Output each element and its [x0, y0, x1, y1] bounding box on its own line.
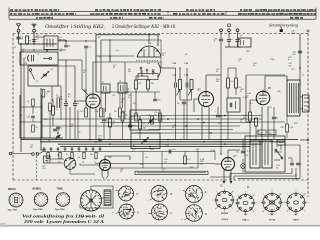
- wire x296 pwr: [295, 174, 297, 180]
- svg-text:g1: g1: [287, 211, 289, 213]
- IF1 res b: [190, 80, 193, 90]
- svg-text:70: 70: [162, 55, 164, 57]
- wire pickup bar: [225, 46, 241, 48]
- wire pwr h: [274, 151, 282, 153]
- svg-text:7: 7: [42, 196, 43, 198]
- svg-text:50: 50: [253, 65, 255, 67]
- mains cap a: [290, 162, 294, 164]
- IF1 cap a: [174, 83, 176, 88]
- svg-text:C10: C10: [47, 91, 50, 93]
- svg-text:S3: S3: [99, 57, 101, 59]
- wire B7 heater 1: [223, 170, 225, 182]
- wafer frame: [80, 186, 113, 208]
- svg-text:25: 25: [240, 121, 242, 123]
- capacitor C52: [241, 150, 245, 152]
- svg-text:24k: 24k: [52, 106, 55, 108]
- wire x131: [130, 93, 132, 133]
- svg-text:Dt: Dt: [220, 185, 223, 188]
- resistor R12: [139, 120, 142, 129]
- svg-text:10t: 10t: [30, 146, 33, 149]
- bottom-left corner shade: [0, 223, 6, 227]
- wire x122 drop: [122, 93, 124, 108]
- bus bundle 3: [100, 122, 250, 124]
- svg-text:D: D: [205, 213, 207, 216]
- terminal A: [17, 29, 20, 32]
- IF1 res a: [179, 80, 182, 90]
- svg-text:Omskifter i Stilling KB2.: Omskifter i Stilling KB2.: [45, 25, 105, 30]
- svg-text:R22: R22: [218, 123, 221, 125]
- svg-text:L3: L3: [24, 58, 26, 60]
- svg-text:b: b: [180, 189, 181, 191]
- wire B3 k1: [201, 107, 203, 140]
- wire x104 b2: [103, 122, 105, 140]
- voltage selector disc: [64, 158, 76, 170]
- wire x52 drop: [51, 86, 53, 102]
- svg-text:S4: S4: [185, 54, 187, 56]
- dashed border left: [12, 34, 14, 181]
- terminal G2: [32, 153, 35, 156]
- top small box: [238, 38, 251, 47]
- wire gang top: [101, 40, 130, 84]
- power supply box: [245, 136, 285, 172]
- speaker box: [303, 95, 310, 112]
- svg-text:25: 25: [123, 194, 125, 196]
- svg-text:4: 4: [37, 201, 38, 203]
- wire top c: [21, 49, 66, 51]
- terminal E: [33, 29, 36, 32]
- wire x148 down: [147, 89, 149, 92]
- wire x24 drop: [23, 58, 25, 140]
- svg-text:B2+B3: B2+B3: [221, 213, 229, 215]
- resistor R3: [42, 90, 45, 98]
- capacitor Cx1: [64, 44, 68, 46]
- svg-text:R18: R18: [246, 51, 249, 53]
- svg-text:50: 50: [129, 192, 131, 194]
- switch bus b: [110, 167, 198, 169]
- tube B5: [256, 91, 270, 105]
- pointer T: [31, 71, 35, 79]
- resistor R25: [184, 156, 187, 164]
- wire input bus: [19, 43, 58, 45]
- svg-text:L1: L1: [37, 54, 39, 56]
- wire x300: [299, 34, 301, 87]
- IF1 cap b: [185, 83, 187, 88]
- svg-text:25: 25: [194, 198, 196, 200]
- bus wire 1: [21, 139, 298, 141]
- wire IF1 down: [175, 88, 177, 140]
- capacitor C60: [98, 138, 102, 140]
- wire mains 2: [274, 159, 280, 161]
- bus bundle 2: [42, 118, 262, 120]
- selector cap C52b: [44, 156, 51, 163]
- capacitor C27: [56, 126, 60, 128]
- svg-text:25: 25: [82, 162, 84, 164]
- wire x61 mid: [60, 86, 62, 120]
- resistor R16: [227, 78, 230, 88]
- svg-text:UBL 1: UBL 1: [242, 219, 249, 221]
- svg-text:Strømforsyning: Strømforsyning: [269, 24, 298, 28]
- svg-text:R26: R26: [150, 149, 153, 151]
- svg-text:L6: L6: [119, 81, 121, 83]
- wire B6 plate: [105, 156, 130, 160]
- wire P1 down: [220, 32, 222, 39]
- trimmer C4: [43, 73, 47, 75]
- resistor R50: [286, 124, 289, 132]
- svg-text:50t: 50t: [231, 80, 234, 83]
- wire ladder v2: [49, 111, 51, 138]
- switch diagram 3: [56, 193, 70, 207]
- resistor R17: [235, 78, 238, 88]
- bus dots 2: [89, 139, 91, 141]
- capacitor C45: [272, 116, 276, 118]
- svg-text:Type 7561: Type 7561: [8, 210, 18, 212]
- resistor R11: [121, 112, 124, 121]
- svg-text:EM 4: EM 4: [293, 218, 299, 221]
- bus wire 3: [58, 143, 262, 145]
- mains entry mark: [280, 29, 283, 32]
- svg-text:L9: L9: [20, 115, 22, 117]
- capacitor C26: [31, 115, 35, 117]
- IF1 arrow b: [188, 91, 191, 96]
- wire x75 up: [74, 66, 76, 103]
- bus bundle 1: [140, 115, 262, 117]
- wire P1 long: [220, 61, 222, 154]
- resistor R1: [26, 36, 29, 44]
- svg-text:C54: C54: [165, 145, 168, 147]
- svg-text:TONE.: TONE.: [57, 188, 64, 190]
- svg-text:g1: g1: [236, 211, 238, 213]
- wire B2 grid: [76, 100, 86, 102]
- svg-text:25: 25: [158, 215, 160, 217]
- switch view E: [186, 186, 203, 203]
- svg-text:4: 4: [59, 201, 60, 203]
- svg-text:2: 2: [42, 203, 43, 205]
- svg-text:0,1: 0,1: [160, 121, 163, 123]
- capacitor C15: [128, 124, 132, 126]
- switch view C: [152, 204, 168, 220]
- IF1 arrow a: [177, 91, 180, 96]
- capacitor C6: [53, 128, 57, 130]
- wire B2 aux: [82, 89, 88, 95]
- junction row mid: [65, 101, 67, 103]
- wire earth down: [33, 32, 35, 44]
- wire B3 grid: [194, 99, 199, 112]
- bottom scan edge band: [0, 225, 320, 228]
- capacitor C40r: [298, 50, 302, 52]
- svg-text:k: k: [47, 94, 48, 96]
- capacitor C30: [219, 38, 223, 40]
- wire speaker a: [300, 96, 303, 98]
- wire x105 drop: [105, 93, 107, 112]
- resistor R31: [32, 125, 35, 132]
- variable cap rotor: [137, 46, 161, 57]
- svg-text:1M: 1M: [200, 163, 203, 165]
- resistor R35: [119, 108, 122, 117]
- wire pilot: [242, 159, 244, 164]
- wire x75 down: [74, 106, 76, 140]
- svg-text:12: 12: [193, 190, 195, 192]
- switch diagram 1: [9, 193, 23, 207]
- wire gram: [12, 153, 32, 155]
- svg-text:50: 50: [163, 212, 165, 214]
- svg-text:7: 7: [163, 193, 164, 195]
- svg-text:g2: g2: [304, 194, 306, 196]
- wire x250 down: [249, 121, 251, 140]
- shield box left: [41, 88, 46, 150]
- bus dots: [167, 118, 169, 120]
- svg-text:1M: 1M: [196, 151, 199, 153]
- band switch resistors: [47, 152, 49, 159]
- wire B7 top: [227, 150, 229, 156]
- socket B2B3: [216, 191, 234, 209]
- wire IF1 res down: [179, 90, 181, 101]
- wire x228 down: [227, 88, 229, 98]
- wire B2 k1: [89, 108, 91, 140]
- power transformer: [250, 140, 260, 168]
- pickup link box: [228, 24, 231, 27]
- svg-text:220 volt- Lysnet forandres C 5: 220 volt- Lysnet forandres C 52 A: [23, 219, 105, 224]
- svg-text:UCH 4: UCH 4: [221, 218, 228, 221]
- svg-text:b: b: [124, 214, 125, 216]
- svg-text:0,5M: 0,5M: [200, 159, 205, 161]
- pot box: [131, 133, 160, 149]
- svg-text:50t: 50t: [143, 127, 146, 130]
- border tick right: [307, 30, 310, 32]
- socket B7: [287, 194, 305, 212]
- wire top mid: [130, 39, 161, 41]
- wire ladder v1: [32, 106, 34, 114]
- wire top v1: [46, 50, 48, 53]
- wire B6 leg2: [107, 170, 109, 176]
- svg-text:g2: g2: [232, 191, 234, 193]
- wire top h37: [34, 36, 44, 38]
- contact L3: [49, 57, 51, 59]
- svg-text:12: 12: [162, 196, 164, 198]
- svg-text:b: b: [113, 212, 114, 214]
- svg-text:12: 12: [191, 215, 193, 217]
- svg-text:25: 25: [60, 51, 62, 53]
- svg-text:4000: 4000: [291, 33, 295, 35]
- svg-text:25: 25: [66, 154, 68, 156]
- svg-text:2: 2: [17, 203, 18, 205]
- boxed labels pwr: [258, 130, 266, 135]
- wire y116 link: [130, 115, 140, 117]
- capacitor C32: [235, 39, 239, 41]
- svg-text:0,1: 0,1: [94, 162, 97, 164]
- dashed border right: [307, 34, 309, 198]
- svg-text:50: 50: [120, 171, 122, 173]
- svg-text:g1: g1: [215, 208, 217, 210]
- svg-text:10t: 10t: [164, 160, 167, 163]
- wire mains 1: [285, 145, 300, 172]
- svg-text:S5: S5: [48, 140, 50, 142]
- det box: [227, 98, 240, 112]
- tube B6: [100, 160, 111, 171]
- capacitor C8: [64, 103, 68, 105]
- resistor R20: [249, 112, 252, 121]
- svg-text:5: 5: [12, 198, 13, 200]
- wire x236 down: [235, 88, 237, 95]
- svg-text:1,2k: 1,2k: [289, 127, 293, 129]
- earth symbol: [33, 25, 35, 29]
- resistor R7: [135, 80, 138, 89]
- wire x274 down: [273, 120, 275, 140]
- wire r7r8 top: [136, 75, 148, 77]
- svg-text:R19: R19: [291, 69, 294, 71]
- wire R50: [286, 116, 288, 124]
- capacitor C14: [102, 118, 106, 120]
- svg-text:L11: L11: [112, 95, 115, 97]
- svg-text:50: 50: [256, 133, 258, 135]
- tube B3: [199, 92, 214, 107]
- svg-text:L5: L5: [102, 82, 104, 84]
- wire x256 down: [255, 126, 257, 140]
- wire B5 grid: [250, 100, 258, 112]
- wire B6 grid: [80, 164, 100, 166]
- svg-text:b: b: [113, 189, 114, 191]
- wire x66 up: [65, 60, 67, 103]
- wire B7 heater 2: [230, 170, 232, 182]
- antenna coil L2: [44, 36, 58, 50]
- svg-text:1M: 1M: [127, 91, 130, 93]
- bus bundle 4: [42, 125, 240, 127]
- capacitor Cx2: [84, 45, 88, 47]
- pilot lamp: [241, 164, 246, 169]
- capacitor C1: [16, 36, 20, 38]
- wire top b: [96, 55, 134, 57]
- wire top h40: [58, 39, 66, 41]
- wire top v2: [109, 56, 111, 62]
- bus bundle 6: [135, 132, 250, 134]
- resistor R34: [100, 108, 103, 117]
- output transformer: [287, 80, 300, 116]
- svg-text:50: 50: [83, 72, 85, 74]
- switch view G: [119, 204, 134, 219]
- capacitor C2: [32, 39, 36, 41]
- wire B3 plate: [205, 75, 207, 90]
- wire left drop: [20, 44, 22, 152]
- svg-text:a: a: [245, 191, 246, 193]
- socket B6: [263, 193, 281, 211]
- dashed border bottom: [13, 179, 310, 181]
- wire P2 down: [228, 32, 230, 39]
- coil L3: [27, 55, 29, 61]
- wire power out 1: [291, 168, 293, 174]
- wire ant down: [18, 32, 20, 44]
- resistor R30: [32, 99, 35, 106]
- wire B7 left: [215, 163, 222, 165]
- capacitor C23: [216, 114, 220, 116]
- wire top a: [58, 40, 96, 42]
- wire af drop 2: [161, 152, 163, 169]
- svg-text:50t: 50t: [289, 64, 292, 67]
- wire B5 plate: [265, 76, 287, 93]
- wire IF1 top: [161, 67, 176, 69]
- wire x53 seg: [52, 99, 54, 106]
- svg-text:50t: 50t: [90, 153, 93, 156]
- osc coil L6: [118, 83, 127, 93]
- mains switch: [276, 150, 282, 158]
- svg-text:UY 1N: UY 1N: [269, 219, 276, 221]
- wire x122 b2: [122, 121, 124, 140]
- svg-text:1M: 1M: [151, 83, 154, 85]
- svg-text:C55: C55: [278, 145, 281, 147]
- svg-text:S2: S2: [36, 81, 38, 83]
- svg-text:25: 25: [113, 67, 115, 69]
- svg-text:BANDS.: BANDS.: [33, 187, 42, 190]
- osc coil L5: [101, 84, 110, 93]
- wire osc bus: [96, 91, 160, 93]
- capacitor C9: [73, 103, 77, 105]
- switch view B: [151, 186, 167, 202]
- switch view H: [119, 186, 134, 201]
- wafer comb: [104, 190, 111, 206]
- svg-text:T2: T2: [302, 75, 304, 77]
- wire B5 k1: [261, 107, 263, 140]
- terminal P1: [220, 29, 223, 32]
- wire pwr v1: [280, 145, 282, 150]
- svg-text:b: b: [182, 219, 183, 221]
- junction input: [26, 43, 28, 45]
- svg-text:DREJV.: DREJV.: [8, 189, 16, 191]
- svg-text:R24: R24: [294, 123, 297, 125]
- resistor R10: [109, 118, 112, 127]
- svg-text:b: b: [130, 212, 131, 214]
- ladder box outline: [20, 95, 63, 138]
- bus wire 4: [60, 146, 250, 148]
- band switch contacts: [43, 148, 45, 150]
- capacitor C50: [168, 149, 170, 153]
- wire af drop 3: [197, 152, 199, 169]
- wire x66 down: [65, 106, 67, 140]
- svg-text:a: a: [272, 190, 273, 192]
- detail box: [130, 110, 160, 130]
- parts value table: [9, 10, 316, 12]
- trimmer C7: [56, 135, 60, 137]
- contact T: [29, 69, 32, 72]
- wire speaker b: [300, 108, 303, 110]
- mains cap b: [296, 162, 300, 164]
- resistor R4: [52, 106, 55, 115]
- wire B2 k2: [95, 108, 97, 140]
- svg-text:C50: C50: [259, 133, 262, 135]
- svg-text:R29: R29: [190, 167, 193, 169]
- antenna symbol: [18, 27, 20, 30]
- svg-text:C48: C48: [280, 127, 283, 129]
- tube B7: [222, 158, 235, 171]
- tube B2: [86, 94, 100, 108]
- wire af drop 1: [142, 152, 144, 169]
- bus bundle 5: [148, 129, 233, 131]
- wire B2 plate: [93, 62, 161, 93]
- terminal P3: [236, 29, 239, 32]
- capacitor C31: [227, 39, 231, 41]
- selector dashed line: [36, 152, 38, 180]
- resistor R33: [85, 108, 88, 117]
- wire x47 drop: [46, 50, 48, 53]
- svg-text:C36: C36: [185, 63, 188, 65]
- wire x136 down: [135, 89, 137, 116]
- svg-text:C35: C35: [173, 63, 176, 65]
- svg-text:C: C: [170, 212, 172, 215]
- svg-text:100: 100: [70, 126, 73, 128]
- svg-text:70: 70: [22, 51, 24, 53]
- wire x110 b2: [109, 127, 111, 140]
- svg-text:25: 25: [197, 210, 199, 212]
- terminal G3: [36, 153, 39, 156]
- wire P3 down: [237, 32, 239, 39]
- switch view D: [186, 205, 203, 222]
